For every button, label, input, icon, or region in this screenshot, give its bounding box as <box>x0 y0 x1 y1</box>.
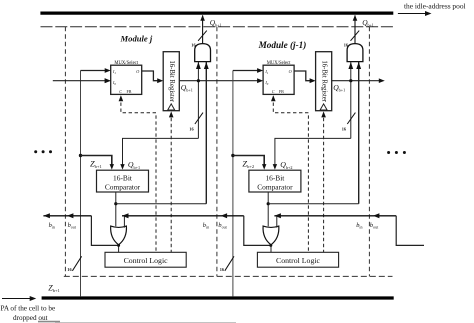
svg-text:the idle-address pool: the idle-address pool <box>404 2 466 11</box>
svg-text:C: C <box>272 89 275 94</box>
svg-text:Qb+1: Qb+1 <box>333 83 345 93</box>
junction U-j Z tap <box>79 154 82 157</box>
bus-width slash U-j top <box>198 31 207 41</box>
svg-text:FB: FB <box>127 89 132 94</box>
wire U-j1 gate right input <box>358 62 360 204</box>
wire bottom Z bus (PA bus) <box>42 296 394 299</box>
pin arrow U-j mux I1 <box>105 68 111 73</box>
svg-text:Qb+1: Qb+1 <box>128 160 140 170</box>
or-gate U-j1 <box>263 226 279 245</box>
mux U-j <box>111 65 142 94</box>
junction module j OR output / b tap <box>117 244 120 247</box>
wire U-j gate right input <box>205 62 207 204</box>
bus-width slash U-j bottom <box>72 256 81 271</box>
bus-width slash U-j mid <box>195 113 203 124</box>
svg-text:16: 16 <box>220 267 225 272</box>
scan artifact bottom edge <box>55 321 236 323</box>
pin arrow U-j1 mux I1 <box>257 68 263 73</box>
svg-text:Zb+1: Zb+1 <box>48 284 60 294</box>
wire U-j Z riser to mux I1 <box>81 70 108 72</box>
svg-text:I1: I1 <box>264 69 268 75</box>
register U-j1 clock triangle pin <box>320 104 327 110</box>
and-gate U-j <box>195 44 211 62</box>
wire top horizontal dashed rail <box>41 26 395 28</box>
wire U-j1 Z riser to mux I1 <box>233 70 260 72</box>
wire U-j register Q output to next mux <box>179 80 259 82</box>
comparator U-j 16-Bit Comparator <box>97 170 149 192</box>
wire b_in module j from module j-1 <box>122 215 244 217</box>
wire bottom horizontal dashed rail <box>64 275 393 277</box>
mux U-j1 <box>263 65 294 94</box>
module boundary dashed line right <box>368 27 370 277</box>
register U-j1 16-Bit Register <box>316 52 332 111</box>
wire U-j1 mux output to register <box>294 71 311 81</box>
svg-text:C: C <box>119 89 122 94</box>
node PA input arrow <box>2 298 31 300</box>
junction U-j comparator output branch <box>114 202 117 205</box>
svg-text:bin: bin <box>356 222 362 230</box>
wire U-j1 or-gate output to control logic <box>270 245 272 253</box>
or-gate U-j <box>111 226 127 245</box>
pin arrow module j mux I0 (redraw) <box>105 78 111 83</box>
svg-text:Zb+2: Zb+2 <box>242 160 254 170</box>
wire U-j gate left input <box>197 62 199 139</box>
pin arrow U-j1 mux I0 <box>257 78 263 83</box>
svg-text:16-Bit Register: 16-Bit Register <box>320 60 327 102</box>
wire U-j1 Z riser from bottom bus <box>232 71 234 297</box>
continuation dots right <box>387 151 390 154</box>
register U-j 16-Bit Register <box>163 52 179 111</box>
svg-text:Qb+1: Qb+1 <box>181 83 193 93</box>
svg-text:bout: bout <box>370 222 379 230</box>
wire U-j or-gate output to control logic <box>118 245 120 253</box>
wire U-j1 register clock dashed <box>323 118 325 253</box>
wire U-j mux control dashed <box>121 97 156 253</box>
wire U-j1 comparator output <box>267 192 269 226</box>
wire U-j1 gate output to idle bus <box>354 15 356 43</box>
wire U-j1 mux control dashed <box>273 97 308 253</box>
svg-text:bout: bout <box>68 222 77 230</box>
wire U-j1 Z tap to comparator <box>233 156 264 166</box>
wire U-j or-gate right input stub <box>123 216 125 228</box>
wire b_out module j riser from OR output <box>91 216 118 246</box>
svg-text:16-Bit: 16-Bit <box>265 174 285 183</box>
svg-text:Control Logic: Control Logic <box>276 256 320 265</box>
bus-width slash U-j1 bottom <box>225 256 234 271</box>
junction U-j1 Q line / gate left input <box>349 79 352 82</box>
junction module j-1 OR output / b tap <box>269 244 272 247</box>
node idle-address pool output arrow <box>398 13 427 15</box>
wire U-j comparator output <box>115 192 117 226</box>
svg-text:O: O <box>289 69 292 74</box>
wire b_out of module j to left edge <box>43 215 91 217</box>
wire U-j1 register Q output to right <box>332 80 381 82</box>
svg-text:MUX/Select: MUX/Select <box>267 61 291 66</box>
svg-text:Qb+2: Qb+2 <box>280 160 292 170</box>
svg-text:Control Logic: Control Logic <box>124 256 168 265</box>
svg-text:MUX/Select: MUX/Select <box>114 61 138 66</box>
wire U-j1 comparator branch to gate right <box>268 203 359 205</box>
bus-width slash U-j1 top <box>351 31 360 41</box>
junction U-j1 comparator output branch <box>267 202 270 205</box>
continuation dots left <box>34 150 37 153</box>
svg-text:Module j: Module j <box>120 34 153 44</box>
wire top idle-address pool bus <box>40 11 393 14</box>
svg-text:16: 16 <box>189 126 194 131</box>
svg-text:bout: bout <box>218 222 227 230</box>
svg-text:Comparator: Comparator <box>257 183 293 192</box>
module boundary dashed line middle <box>216 27 218 277</box>
wire U-j register clock dashed <box>170 118 172 253</box>
svg-text:Comparator: Comparator <box>105 183 141 192</box>
svg-text:16: 16 <box>67 267 72 272</box>
scan artifact bottom-left blob <box>38 321 60 323</box>
svg-text:I0: I0 <box>264 80 268 86</box>
svg-text:16-Bit: 16-Bit <box>113 174 133 183</box>
wire U-j Z riser from bottom bus <box>80 71 82 297</box>
svg-text:Qb+1: Qb+1 <box>362 18 374 28</box>
svg-text:I1: I1 <box>112 69 116 75</box>
wire U-j comparator branch to gate right <box>116 203 207 205</box>
wire U-j Z tap to comparator <box>81 156 112 166</box>
svg-text:bin: bin <box>49 222 55 230</box>
junction U-j1 Z tap <box>231 154 234 157</box>
svg-text:Module (j-1): Module (j-1) <box>258 40 307 50</box>
pin arrow U-j mux I0 <box>105 78 111 83</box>
wire U-j1 Q feedback corner <box>275 138 351 165</box>
svg-text:O: O <box>136 69 139 74</box>
wire b_in module j-1 stub from right edge <box>396 216 424 246</box>
svg-text:bin: bin <box>203 222 209 230</box>
wire module j I0 input stub <box>53 80 107 82</box>
wire U-j1 or-gate right input stub <box>276 216 278 228</box>
svg-text:I0: I0 <box>112 80 116 86</box>
and-gate U-j1 <box>347 44 363 62</box>
comparator U-j1 16-Bit Comparator <box>249 170 301 192</box>
bus-width slash U-j1 mid <box>347 113 355 124</box>
junction U-j Q line / gate left input <box>197 79 200 82</box>
svg-text:Zb+1: Zb+1 <box>90 160 102 170</box>
module boundary dashed line left <box>64 27 66 277</box>
svg-text:FB: FB <box>279 89 284 94</box>
wire U-j mux output to register <box>142 71 159 81</box>
svg-text:Qb+1: Qb+1 <box>210 18 222 28</box>
wire b_in module j-1 from right <box>274 215 396 217</box>
svg-text:PA of the cell to be: PA of the cell to be <box>1 305 56 313</box>
wire U-j Q feedback corner <box>123 138 199 165</box>
svg-text:16-Bit Register: 16-Bit Register <box>168 60 175 102</box>
control-logic U-j <box>105 252 186 267</box>
wire U-j1 gate left input <box>350 62 352 139</box>
wire U-j gate output to idle bus <box>202 15 204 43</box>
register U-j clock triangle pin <box>168 104 175 110</box>
control-logic U-j1 <box>257 252 338 267</box>
wire b_in module j riser from OR j-1 output <box>244 216 271 246</box>
svg-text:16: 16 <box>342 126 347 131</box>
